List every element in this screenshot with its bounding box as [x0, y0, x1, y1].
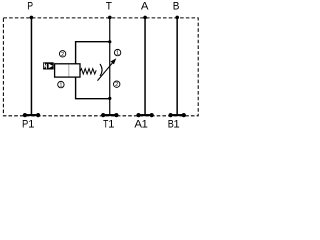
svg-text:1: 1	[108, 119, 114, 131]
svg-text:2: 2	[61, 52, 64, 58]
svg-text:2: 2	[115, 82, 118, 88]
svg-text:1: 1	[59, 83, 62, 89]
svg-text:B: B	[173, 1, 180, 13]
svg-text:P: P	[27, 1, 33, 13]
svg-text:T: T	[106, 1, 112, 13]
svg-text:1: 1	[116, 51, 119, 57]
svg-text:1: 1	[28, 119, 34, 131]
svg-text:1: 1	[142, 119, 148, 131]
svg-text:A: A	[141, 1, 149, 13]
svg-text:1: 1	[173, 119, 179, 131]
